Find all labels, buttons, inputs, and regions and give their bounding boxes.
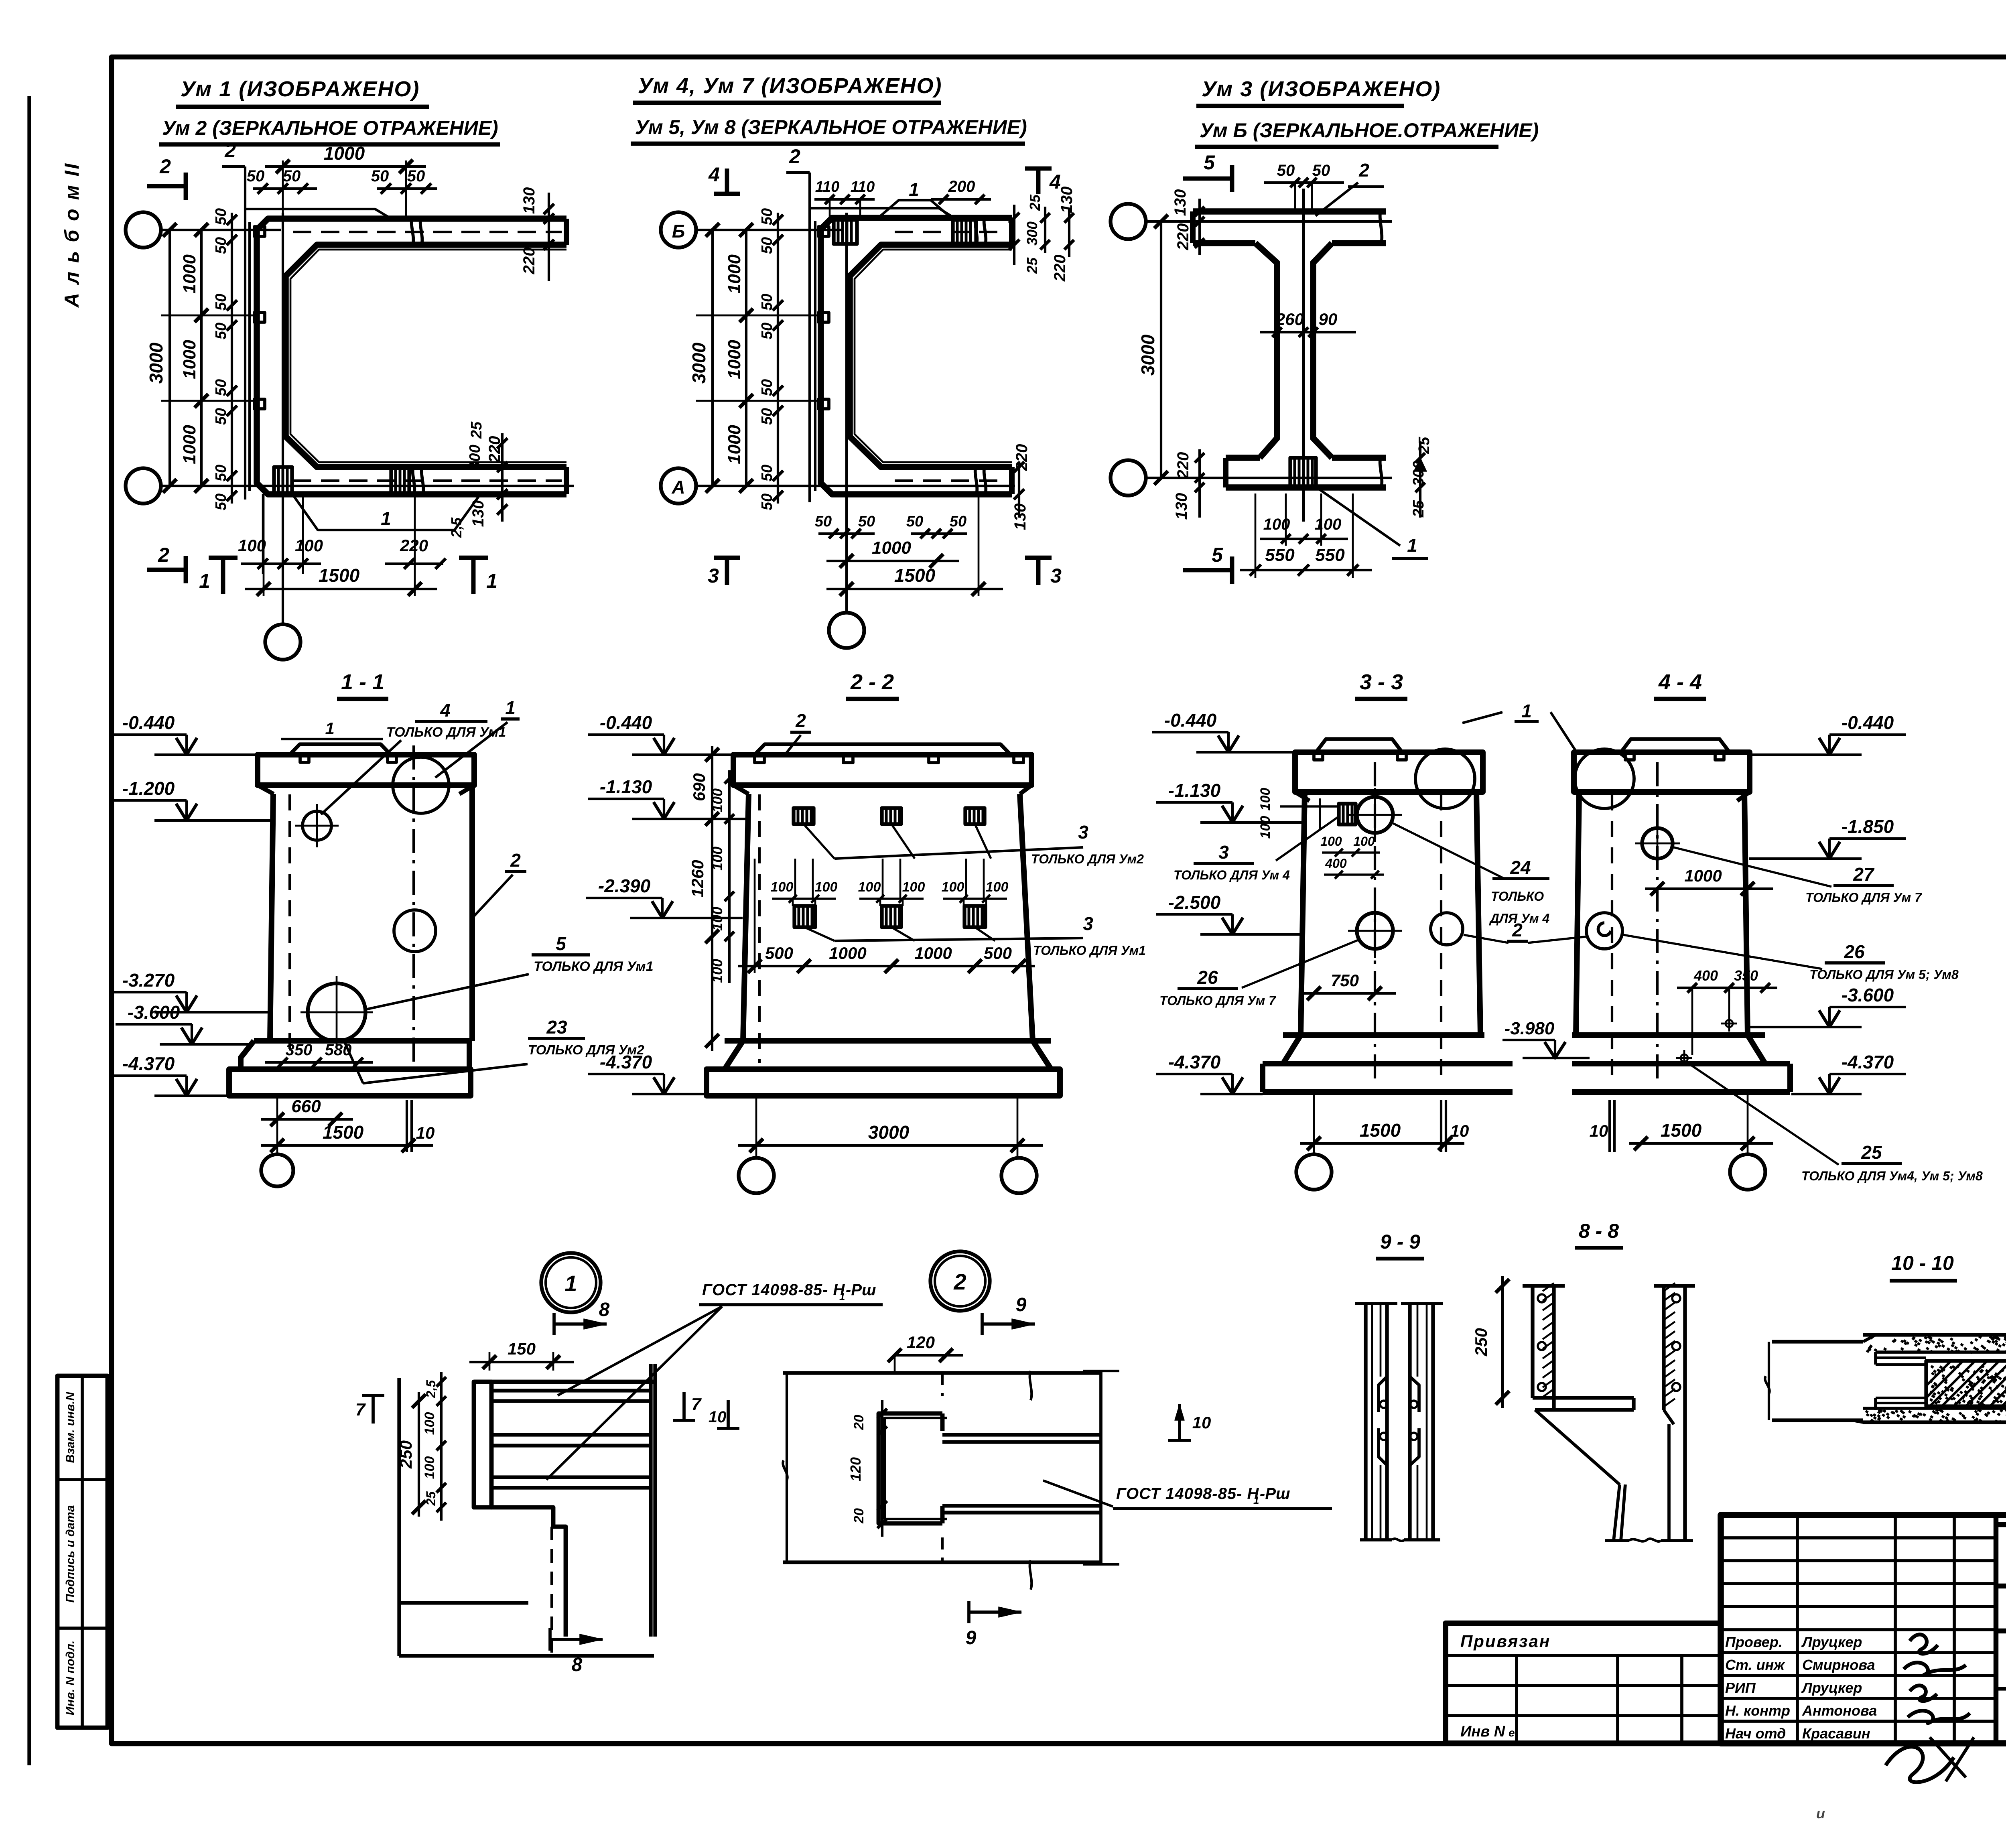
- plan Ум4 bottom wall joint break: [975, 466, 986, 496]
- section 2-2 plate stud dims 100 100: [771, 859, 1009, 906]
- detail 1 corner step profile: [491, 1507, 566, 1657]
- section 3-3 label 2 in gap: [1464, 920, 1588, 943]
- detail 1 lower region lines: [399, 1378, 654, 1656]
- svg-text:220: 220: [400, 536, 428, 555]
- plan Ум3 bottom dims 100 100: [1260, 493, 1348, 546]
- section 1-1 hole large circle: [300, 976, 373, 1048]
- svg-text:1500: 1500: [894, 565, 936, 586]
- svg-text:1: 1: [486, 570, 497, 592]
- svg-text:1: 1: [505, 697, 516, 718]
- svg-text:220: 220: [1051, 255, 1069, 282]
- plan 1 title line 2: [159, 117, 500, 144]
- section 1-1 label 1 over cap: [281, 719, 383, 739]
- plan 2 title line 1: [633, 74, 942, 103]
- section 3-3 elevation -4.370: [1222, 1077, 1243, 1094]
- svg-text:50: 50: [906, 513, 923, 530]
- svg-text:1000: 1000: [829, 944, 866, 963]
- section 1-1 dims 350 580: [265, 1041, 373, 1067]
- svg-text:20: 20: [851, 1415, 867, 1430]
- svg-text:Инв. N подл.: Инв. N подл.: [64, 1641, 77, 1716]
- svg-text:120: 120: [907, 1333, 935, 1352]
- plan Ум1 top wall joint break: [412, 217, 422, 246]
- svg-text:100: 100: [858, 879, 881, 895]
- section 8-8 left hatched strip: [1523, 1283, 1565, 1410]
- section 1-1 label 5 tolko dlya Um1: [365, 933, 653, 1009]
- plan Ум3 web outline with chamfers: [1255, 243, 1332, 458]
- svg-text:1: 1: [839, 1290, 845, 1302]
- svg-text:3: 3: [708, 565, 719, 587]
- title block outer box: [1721, 1515, 2006, 1743]
- svg-text:1260: 1260: [688, 860, 707, 897]
- svg-text:3000: 3000: [688, 342, 709, 384]
- plan Ум4 wall centerline dashes: [895, 232, 1007, 481]
- detail 1 wall verticals right: [651, 1364, 655, 1637]
- section 3-3 dim 750: [1300, 971, 1396, 1000]
- svg-text:100: 100: [709, 959, 725, 983]
- plan Ум4 anchor plate 1 on top wall: [834, 220, 857, 244]
- section 1-1 callout circle middle: [394, 910, 436, 952]
- svg-text:Подпись и дата: Подпись и дата: [64, 1505, 77, 1602]
- svg-text:660: 660: [291, 1097, 321, 1116]
- svg-text:750: 750: [1331, 971, 1359, 990]
- section 4-4 hole circle with cross: [1635, 821, 1680, 866]
- svg-text:50: 50: [759, 237, 776, 254]
- svg-text:2: 2: [795, 710, 806, 731]
- svg-text:1000: 1000: [180, 254, 199, 294]
- svg-text:-1.200: -1.200: [122, 778, 175, 799]
- svg-text:5: 5: [1204, 151, 1215, 174]
- svg-text:50: 50: [213, 294, 229, 311]
- svg-text:25: 25: [424, 1491, 438, 1506]
- svg-text:50: 50: [950, 513, 966, 530]
- plan Ум1 embed marks on left wall face: [254, 227, 265, 409]
- plan Ум3 left bottom dims 220 130: [1173, 449, 1204, 520]
- svg-text:100: 100: [709, 788, 725, 812]
- plan Ум4 top dims 110 110: [814, 179, 875, 218]
- svg-text:2: 2: [789, 145, 800, 168]
- svg-text:400: 400: [1693, 967, 1718, 984]
- section 3-3 dim 1500 and 10: [1300, 1092, 1469, 1156]
- svg-text:А: А: [671, 477, 685, 498]
- svg-text:ТОЛЬКО ДЛЯ Ум 7: ТОЛЬКО ДЛЯ Ум 7: [1159, 993, 1277, 1008]
- section 4-4 circle lower left: [1586, 913, 1622, 949]
- svg-text:50: 50: [759, 208, 776, 225]
- svg-text:-2.390: -2.390: [598, 875, 651, 896]
- svg-text:Ум 4, Ум 7 (ИЗОБРАЖЕНО): Ум 4, Ум 7 (ИЗОБРАЖЕНО): [638, 74, 942, 98]
- plan Ум3 right dims 25 300 25: [1410, 437, 1433, 518]
- section 1-1 dim 1500 and 10: [261, 1100, 434, 1152]
- svg-text:2 - 2: 2 - 2: [850, 670, 894, 694]
- svg-text:Ум Б (ЗЕРКАЛЬНОЕ.ОТРАЖЕНИЕ): Ум Б (ЗЕРКАЛЬНОЕ.ОТРАЖЕНИЕ): [1200, 119, 1539, 142]
- section 2-2 axis circles bottom: [739, 1158, 1037, 1193]
- svg-text:220: 220: [486, 436, 504, 463]
- section 4-4 axis circle bottom: [1730, 1154, 1765, 1190]
- detail 1 left formwork plate: [474, 1382, 491, 1507]
- svg-text:50: 50: [371, 167, 389, 185]
- plan Ум3 bottom dims 550 550: [1240, 493, 1372, 578]
- plan Ум4 top wall joint break: [975, 217, 986, 246]
- svg-text:Провер.: Провер.: [1725, 1634, 1783, 1650]
- svg-text:1000: 1000: [180, 425, 199, 464]
- svg-text:ТОЛЬКО ДЛЯ Ум4, Ум 5; Ум8: ТОЛЬКО ДЛЯ Ум4, Ум 5; Ум8: [1801, 1169, 1983, 1183]
- section 3-3 hatched plate top left: [1339, 804, 1356, 824]
- svg-text:50: 50: [858, 513, 875, 530]
- detail callout circle 2: [930, 1251, 990, 1311]
- plan Ум4 axis circle Б: [661, 212, 696, 248]
- svg-text:3000: 3000: [1137, 334, 1158, 376]
- plan Ум3 bottom flange outline: [1226, 458, 1386, 487]
- svg-text:8: 8: [599, 1299, 610, 1320]
- plan Ум3 axis lines: [1146, 221, 1392, 478]
- section 2-2 elevation -2.390: [652, 901, 673, 918]
- svg-text:10: 10: [709, 1408, 727, 1426]
- section 1-1 elevation -0.440: [176, 738, 197, 755]
- section 2-2 elevation -1.130: [654, 802, 674, 819]
- svg-text:100: 100: [422, 1456, 437, 1479]
- section 1-1 elevation -1.200: [176, 804, 197, 820]
- svg-text:1000: 1000: [1684, 866, 1722, 885]
- svg-text:-3.270: -3.270: [122, 970, 175, 991]
- svg-text:ГОСТ 14098-85- Н: ГОСТ 14098-85- Н: [1116, 1485, 1259, 1503]
- detail 2 top wall line: [783, 1371, 1101, 1400]
- svg-text:-4.370: -4.370: [122, 1053, 175, 1074]
- svg-text:550: 550: [1315, 545, 1345, 565]
- svg-text:250: 250: [396, 1440, 415, 1469]
- svg-text:10: 10: [416, 1123, 435, 1142]
- section 3-3 cap: [1295, 739, 1483, 801]
- svg-text:110: 110: [851, 179, 875, 195]
- detail 2 left dims 20 120 20: [847, 1400, 887, 1537]
- svg-text:4: 4: [440, 700, 451, 721]
- svg-text:90: 90: [1319, 310, 1338, 329]
- detail 1 stud bar 3: [491, 1477, 652, 1488]
- section 2-2 bottom plates leader to label 3: [804, 913, 1146, 958]
- svg-text:100: 100: [986, 879, 1009, 895]
- svg-text:1: 1: [325, 719, 334, 738]
- svg-text:1: 1: [1521, 701, 1532, 721]
- plan Ум4 dim chain 50 pairs left: [759, 208, 783, 510]
- svg-text:500: 500: [984, 944, 1012, 963]
- section 4-4 cap: [1574, 739, 1750, 801]
- svg-text:1000: 1000: [914, 944, 952, 963]
- svg-text:2: 2: [1512, 920, 1523, 940]
- plan Ум1 cut line 2-2 vertical: [222, 139, 245, 500]
- svg-text:4: 4: [708, 163, 720, 186]
- svg-text:Антонова: Антонова: [1802, 1702, 1877, 1719]
- detail 1 marker 10 right: [709, 1400, 739, 1428]
- plan Ум1 bottom dims 100 100: [238, 494, 323, 574]
- svg-text:7: 7: [691, 1395, 702, 1414]
- svg-text:25: 25: [468, 421, 485, 439]
- detail 2 left bracket: [783, 1373, 787, 1562]
- svg-text:-4.370: -4.370: [1842, 1052, 1894, 1072]
- svg-text:220: 220: [1174, 223, 1192, 251]
- section 4-4 elevation -0.440 right: [1819, 738, 1840, 755]
- svg-text:50: 50: [213, 379, 229, 396]
- plan Ум1 inner formwork line: [290, 250, 566, 462]
- plan Ум1 dim 3000 left: [146, 223, 177, 493]
- svg-text:Лруцкер: Лруцкер: [1801, 1634, 1862, 1650]
- plan Ум1 dim chain 1000x3: [161, 223, 257, 493]
- svg-text:2: 2: [953, 1269, 966, 1294]
- section 2-2 anchor plates top row: [794, 808, 814, 824]
- section 10-10 top concrete strip: [1772, 1335, 2006, 1353]
- svg-text:27: 27: [1853, 864, 1875, 885]
- plan 3 title line 2: [1195, 119, 1539, 147]
- svg-text:-0.440: -0.440: [600, 712, 652, 733]
- svg-text:1500: 1500: [1661, 1120, 1702, 1141]
- section 3-3 callout small circle right: [1431, 913, 1463, 945]
- svg-text:1000: 1000: [180, 340, 199, 379]
- svg-text:150: 150: [508, 1339, 536, 1358]
- svg-text:-0.440: -0.440: [122, 712, 175, 733]
- plan Ум4 top dim 200: [931, 178, 991, 204]
- detail 2 right end cap: [1083, 1371, 1119, 1564]
- section 3-3 elevation -0.440: [1218, 735, 1239, 752]
- left stamp box: [57, 1376, 108, 1728]
- detail 2 marker 10 mid: [1168, 1404, 1211, 1440]
- plan Ум1 axis circle bottom: [265, 624, 300, 660]
- svg-text:10 - 10: 10 - 10: [1891, 1252, 1954, 1274]
- svg-text:580: 580: [325, 1041, 352, 1059]
- detail 2 GOST label 2 with leader: [1043, 1480, 1332, 1509]
- section 2-2 top plates leader to label 3: [804, 822, 1144, 866]
- plan Ум1 right end top dims 130 220: [520, 187, 554, 281]
- detail 2 marker 9 top: [982, 1294, 1035, 1335]
- svg-text:200: 200: [948, 178, 975, 195]
- svg-text:100: 100: [1320, 834, 1342, 849]
- section 1-1 base: [229, 1041, 471, 1096]
- svg-text:-4.370: -4.370: [1168, 1052, 1221, 1072]
- svg-text:24: 24: [1510, 857, 1531, 878]
- plan Ум4 inner formwork line: [855, 250, 1012, 462]
- plan Ум1 leader callout 1 trapezoid: [292, 494, 480, 530]
- plan Ум4 bottom dims 50 pairs: [815, 513, 967, 538]
- svg-text:-Рш: -Рш: [846, 1281, 876, 1299]
- section 8-8 dim 250: [1472, 1276, 1509, 1408]
- svg-text:25: 25: [1410, 500, 1427, 518]
- svg-text:-0.440: -0.440: [1842, 712, 1894, 733]
- svg-text:7: 7: [355, 1400, 366, 1420]
- section 2-2 anchor plates bottom row: [794, 906, 815, 927]
- svg-text:500: 500: [765, 944, 793, 963]
- svg-text:220: 220: [1013, 444, 1031, 471]
- svg-text:50: 50: [759, 323, 776, 339]
- svg-text:120: 120: [847, 1457, 864, 1481]
- section 2-2 cap: [733, 744, 1031, 794]
- section 1-1 label 1 right with leader: [435, 697, 520, 778]
- plan Ум3 axis circle bottom-left: [1111, 460, 1146, 496]
- svg-text:Привязан: Привязан: [1460, 1632, 1551, 1651]
- svg-text:100: 100: [902, 879, 925, 895]
- svg-text:26: 26: [1844, 941, 1865, 962]
- plan Ум4 right end dims cluster: [1009, 187, 1076, 282]
- section 10-10 upper rails: [1876, 1352, 1926, 1365]
- plan Ум4 wall inner outline: [850, 245, 1012, 467]
- section 4-4 wall body: [1576, 762, 1748, 1083]
- svg-text:ТОЛЬКО ДЛЯ Ум 4: ТОЛЬКО ДЛЯ Ум 4: [1174, 868, 1290, 882]
- svg-text:260: 260: [1275, 310, 1304, 329]
- section 1-1 callout circle top right: [393, 757, 449, 813]
- elevation -3.980 in gap: [1502, 1019, 1590, 1058]
- section 10-10 middle hatched block: [1906, 1361, 2006, 1406]
- svg-text:9: 9: [1016, 1294, 1027, 1316]
- section 9-9 title: [1376, 1231, 1424, 1259]
- plan Ум3 section marker 5 top: [1183, 151, 1232, 192]
- section 8-8 right hatched strip: [1654, 1283, 1695, 1541]
- svg-text:130: 130: [1173, 493, 1190, 520]
- sheet trim line left: [27, 96, 31, 1765]
- plan Ум1 section marker 2 top-left: [147, 155, 186, 200]
- svg-text:1: 1: [199, 570, 210, 592]
- section 4-4 dims 400 350: [1677, 967, 1777, 1055]
- svg-text:2,5: 2,5: [448, 517, 465, 538]
- section 3-3 plate dims 100 120 400: [1258, 788, 1384, 879]
- svg-text:1: 1: [564, 1271, 577, 1296]
- svg-text:2: 2: [1358, 160, 1369, 181]
- section 1-1 label 23 tolko dlya Um2: [345, 1017, 644, 1083]
- svg-text:100: 100: [238, 536, 266, 555]
- svg-text:1: 1: [1407, 535, 1417, 556]
- section 2-2 wall body: [743, 794, 1033, 1063]
- svg-text:50: 50: [213, 493, 229, 510]
- detail 1 dim 150 top: [469, 1339, 574, 1371]
- plan Ум4 embed marks on left wall face: [818, 227, 829, 409]
- section 4-4 dim 10 and 1500: [1590, 1092, 1773, 1156]
- svg-text:50: 50: [759, 465, 776, 481]
- section 1-1 label 4 tolko dlya Um1: [321, 700, 506, 814]
- svg-text:50: 50: [759, 294, 776, 311]
- section 10-10 bottom concrete strip: [1772, 1408, 2006, 1423]
- svg-text:ТОЛЬКО ДЛЯ Ум1: ТОЛЬКО ДЛЯ Ум1: [534, 959, 653, 974]
- section 9-9 right strip: [1401, 1304, 1443, 1540]
- section 3-3 label 24 tolko dlya Um4 in gap: [1393, 823, 1549, 926]
- svg-text:100: 100: [295, 536, 323, 555]
- plan Ум3 web dims 260 90: [1260, 310, 1356, 337]
- plan Ум1 axis circle bottom-left: [126, 468, 161, 504]
- plan Ум3 flange break marks right: [1380, 209, 1382, 489]
- plan Ум4 outer formwork line: [810, 208, 954, 491]
- plan Ум1 section marker 1 right: [459, 558, 497, 594]
- detail 1 marker 7 right: [673, 1392, 702, 1420]
- detail 1 GOST label with leaders: [546, 1281, 883, 1480]
- svg-text:Ум 3 (ИЗОБРАЖЕНО): Ум 3 (ИЗОБРАЖЕНО): [1202, 77, 1441, 101]
- format note faint: [1816, 1788, 2006, 1834]
- plan Ум1 bottom dim 220: [385, 536, 446, 569]
- plan Ум4 wall outer outline: [821, 218, 1012, 494]
- section 3-3 wall body: [1301, 762, 1480, 1083]
- detail 2 marker 9 bottom: [966, 1601, 1021, 1649]
- section 4-4 callout circle top left: [1575, 749, 1634, 808]
- svg-text:Б: Б: [672, 221, 685, 242]
- plan Ум3 left top dims 130 220: [1172, 189, 1204, 255]
- svg-text:100: 100: [942, 879, 964, 895]
- plan Ум3 top flange outline: [1193, 211, 1386, 243]
- detail 1 marker 8 bottom: [550, 1628, 603, 1675]
- sections 3-3 4-4 common label 1 bracket: [1462, 701, 1576, 751]
- svg-text:220: 220: [520, 248, 538, 275]
- svg-text:1500: 1500: [1360, 1120, 1401, 1141]
- section 1-1 label 2 with leader: [473, 850, 526, 917]
- section 4-4 elevation -1.850 right: [1819, 842, 1840, 859]
- section 3-3 callout circle top right: [1415, 749, 1475, 808]
- svg-text:1000: 1000: [872, 538, 911, 558]
- section 8-8 corner profile: [1533, 1398, 1693, 1541]
- section 4-4 dim 1000: [1645, 866, 1773, 896]
- svg-text:690: 690: [690, 773, 709, 801]
- svg-text:1 - 1: 1 - 1: [341, 670, 384, 694]
- svg-text:-1.850: -1.850: [1842, 816, 1894, 837]
- plan Ум1 bottom dim 1500: [245, 494, 437, 596]
- svg-text:2: 2: [158, 544, 169, 566]
- svg-text:50: 50: [213, 408, 229, 425]
- svg-text:100: 100: [422, 1412, 437, 1435]
- plan Ум1 wall end lines: [564, 219, 569, 494]
- svg-text:50: 50: [815, 513, 832, 530]
- plan Ум4 bottom right dims 220 130: [1011, 444, 1031, 530]
- svg-text:100: 100: [1258, 816, 1273, 839]
- section 2-2 label 2 top: [786, 710, 811, 754]
- plan Ум4 wall end lines: [1009, 218, 1015, 494]
- plan Ум3 top dims 50 50: [1264, 162, 1344, 211]
- svg-text:50: 50: [759, 408, 776, 425]
- section 1-1 axis circle bottom: [261, 1096, 293, 1186]
- svg-text:Ум 1 (ИЗОБРАЖЕНО): Ум 1 (ИЗОБРАЖЕНО): [181, 77, 420, 101]
- svg-text:50: 50: [213, 323, 229, 339]
- detail 2 bottom wall line: [783, 1560, 1101, 1590]
- section 10-10 left bracket: [1765, 1342, 1769, 1420]
- svg-text:Инв N: Инв N: [1460, 1723, 1506, 1740]
- svg-text:-0.440: -0.440: [1164, 710, 1217, 731]
- plan Ум3 section marker 5 bottom: [1183, 544, 1232, 584]
- section 1-1 elevation -3.600: [181, 1028, 202, 1044]
- svg-text:ГОСТ 14098-85- Н: ГОСТ 14098-85- Н: [702, 1281, 845, 1299]
- plan Ум4 section marker 4 top-right: [1025, 169, 1061, 194]
- title block signatures squiggles: [1886, 1635, 1974, 1782]
- privyazan box: [1446, 1623, 1721, 1743]
- section 2-2 elevation -0.440: [654, 738, 674, 755]
- svg-text:50: 50: [283, 167, 301, 185]
- section 4-4 label 27 tolko dlya Um7: [1674, 847, 1923, 905]
- svg-text:А л ь б о м II: А л ь б о м II: [61, 162, 83, 309]
- svg-text:1: 1: [381, 508, 391, 529]
- plan Ум4 cut line 2 vertical: [786, 145, 810, 502]
- plan Ум4 leader callout 1 trapezoid top: [878, 179, 951, 218]
- svg-text:ТОЛЬКО ДЛЯ Ум 7: ТОЛЬКО ДЛЯ Ум 7: [1805, 890, 1923, 905]
- plan Ум4 dim 3000 left: [688, 223, 719, 493]
- svg-text:25: 25: [1416, 437, 1433, 454]
- plan Ум1 axis lines: [161, 213, 574, 624]
- svg-text:-3.600: -3.600: [128, 1002, 180, 1023]
- plan Ум4 axis circle А: [661, 468, 696, 504]
- svg-text:-1.130: -1.130: [600, 776, 652, 797]
- detail 2 channel bracket: [879, 1413, 947, 1523]
- plan Ум4 bottom dim 1000: [826, 538, 959, 568]
- svg-text:130: 130: [1172, 189, 1189, 216]
- svg-text:100: 100: [771, 879, 794, 895]
- plan Ум1 anchor plate 2 hatched: [391, 467, 409, 494]
- plan Ум3 anchor plate hatched: [1290, 458, 1316, 487]
- svg-text:350: 350: [286, 1041, 313, 1059]
- plan Ум1 wall outer outline: [257, 219, 566, 494]
- svg-text:300: 300: [1410, 461, 1427, 486]
- plan Ум1 section marker 1 left: [199, 558, 238, 594]
- section 1-1 elevation -4.370: [176, 1079, 197, 1096]
- svg-text:-4.370: -4.370: [600, 1052, 652, 1072]
- svg-text:Н. контр: Н. контр: [1725, 1702, 1790, 1719]
- svg-text:-3.600: -3.600: [1842, 985, 1894, 1005]
- section 9-9 left strip: [1355, 1304, 1397, 1540]
